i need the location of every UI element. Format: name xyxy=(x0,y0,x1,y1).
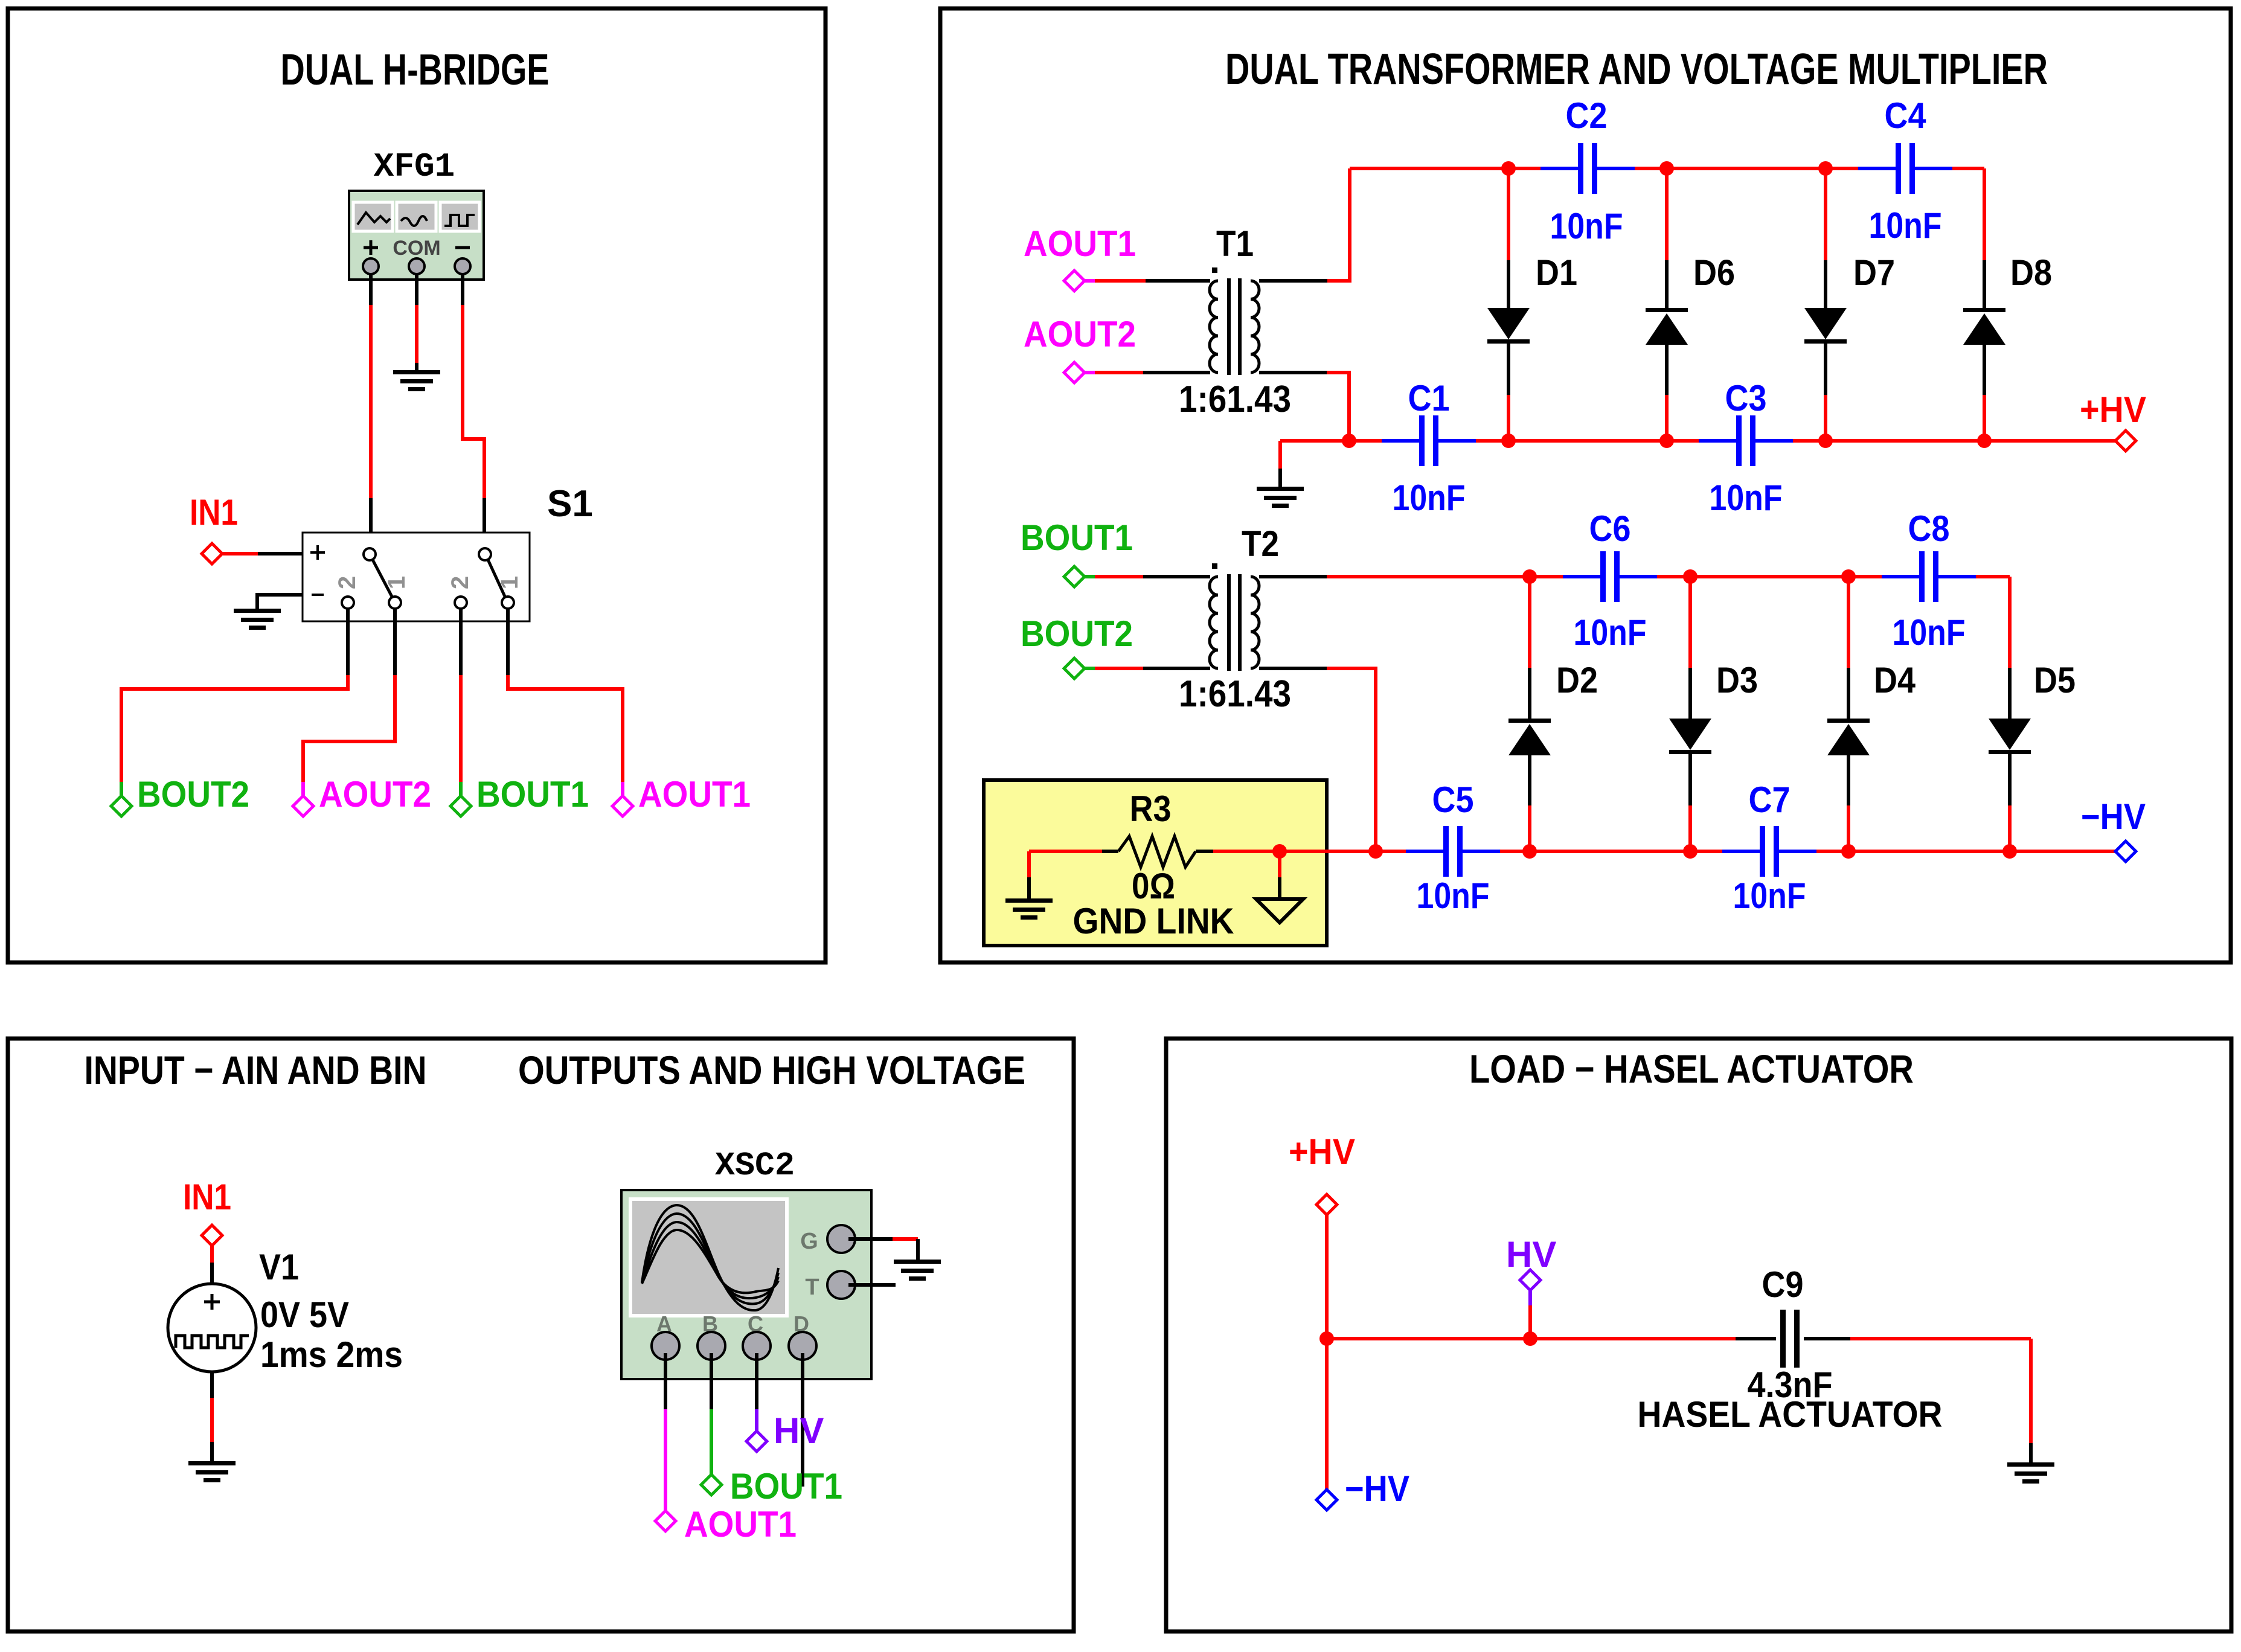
wire channel D stub xyxy=(801,1353,804,1487)
svg-text:C6: C6 xyxy=(1589,508,1631,549)
node AOUT2 connector xyxy=(1064,362,1085,383)
oscilloscope channel C terminal xyxy=(743,1311,771,1360)
svg-text:R3: R3 xyxy=(1130,789,1172,829)
capacitor C1 label xyxy=(1408,378,1450,418)
node AOUT1 connector xyxy=(1064,271,1085,291)
diode D2 vertical wire xyxy=(1528,577,1531,851)
wire T2 secondary bottom to lower bus xyxy=(1259,668,1376,851)
svg-text:IN1: IN1 xyxy=(183,1177,231,1217)
diode D5 label xyxy=(2034,660,2076,700)
node AOUT1 label xyxy=(638,774,751,815)
svg-text:D2: D2 xyxy=(1556,660,1598,700)
svg-text:+HV: +HV xyxy=(1289,1132,1355,1172)
junction dots load bus xyxy=(1319,1331,1537,1346)
svg-text:C1: C1 xyxy=(1408,378,1450,418)
capacitor C8 label xyxy=(1908,508,1950,549)
capacitor C2 value 10nF xyxy=(1550,206,1623,246)
wire T2 secondary top to lower top bus xyxy=(1259,575,1563,578)
node IN1 label box3 xyxy=(183,1177,231,1217)
svg-text:BOUT2: BOUT2 xyxy=(137,774,249,815)
node +HV label xyxy=(2080,389,2146,430)
capacitor C7 xyxy=(1722,826,1816,877)
node BOUT1 label xyxy=(476,774,589,815)
switch S1 body xyxy=(303,533,530,621)
svg-text:C3: C3 xyxy=(1725,378,1767,418)
diode D7 vertical wire xyxy=(1824,168,1827,441)
diode D4 xyxy=(1827,719,1870,755)
oscilloscope channel A terminal xyxy=(652,1311,679,1360)
diode D3 xyxy=(1669,719,1711,754)
wire +HV down to load bus xyxy=(1325,1215,1329,1339)
wire upper return bus segment 3 to +HV xyxy=(1793,439,2115,443)
svg-text:D1: D1 xyxy=(1536,252,1577,293)
svg-text:2: 2 xyxy=(447,576,473,589)
svg-text:−HV: −HV xyxy=(1345,1468,1409,1509)
ground below V1 xyxy=(188,1461,236,1482)
svg-text:DUAL TRANSFORMER AND VOLTAGE M: DUAL TRANSFORMER AND VOLTAGE MULTIPLIER xyxy=(1225,45,2048,94)
wire V1 to ground xyxy=(210,1372,214,1462)
source V1 body xyxy=(168,1284,256,1372)
node IN1 label xyxy=(190,492,238,533)
svg-text:BOUT1: BOUT1 xyxy=(1021,517,1133,558)
svg-text:10nF: 10nF xyxy=(1710,478,1783,518)
node BOUT1 connector xyxy=(450,796,471,816)
wire XFG1 + to S1 pole1 xyxy=(369,273,373,549)
ground below S1 xyxy=(234,609,281,630)
diode D4 vertical wire xyxy=(1847,577,1850,851)
node -HV connector xyxy=(2115,841,2136,862)
transformer T1 ratio label 1:61.43 xyxy=(1179,379,1291,420)
wire channel B to BOUT1 xyxy=(710,1353,713,1474)
wire S1 throw to BOUT2 xyxy=(121,609,348,796)
wire G to ground xyxy=(848,1239,918,1262)
node BOUT1 connector box2 xyxy=(1064,566,1085,587)
wire channel C to HV xyxy=(755,1353,758,1431)
capacitor C6 value 10nF xyxy=(1574,612,1647,653)
section frame LOAD - HASEL ACTUATOR xyxy=(1166,1039,2231,1631)
earth ground right of R3 xyxy=(1256,851,1303,923)
oscilloscope G terminal xyxy=(800,1225,855,1254)
resistor R3 label xyxy=(1130,789,1172,829)
diode D8 label xyxy=(2010,252,2052,293)
svg-text:+HV: +HV xyxy=(2080,389,2146,430)
svg-text:1:61.43: 1:61.43 xyxy=(1179,673,1291,715)
capacitor C3 value 10nF xyxy=(1710,478,1783,518)
capacitor C5 label xyxy=(1432,780,1474,820)
svg-text:HV: HV xyxy=(1506,1234,1556,1275)
junction dots lower multiplier xyxy=(1272,569,2017,859)
capacitor C9 xyxy=(1736,1310,1850,1368)
switch S1 label xyxy=(547,483,593,525)
wire IN1 to S1 xyxy=(223,552,303,555)
node -HV label xyxy=(2081,796,2146,837)
svg-text:OUTPUTS AND HIGH VOLTAGE: OUTPUTS AND HIGH VOLTAGE xyxy=(518,1048,1025,1092)
svg-text:D8: D8 xyxy=(2010,252,2052,293)
capacitor C5 xyxy=(1406,826,1500,877)
node AOUT2 label xyxy=(1024,314,1136,354)
svg-text:AOUT2: AOUT2 xyxy=(319,774,431,815)
capacitor C2 xyxy=(1540,143,1635,194)
diode D2 xyxy=(1508,719,1551,755)
source V1 label xyxy=(259,1247,299,1287)
capacitor C3 xyxy=(1699,415,1793,466)
transformer T1 label xyxy=(1216,223,1254,264)
svg-text:C7: C7 xyxy=(1749,780,1791,820)
wire AOUT2 to T1 primary bottom xyxy=(1085,371,1210,374)
svg-text:C8: C8 xyxy=(1908,508,1950,549)
wire HV stub to load bus xyxy=(1528,1290,1532,1339)
GND LINK label xyxy=(1073,901,1234,941)
wire lower top bus segment 2 xyxy=(1657,575,1882,578)
wire lower bus segment 3 to -HV xyxy=(1816,850,2115,853)
section frame DUAL H-BRIDGE xyxy=(8,8,826,962)
svg-text:C4: C4 xyxy=(1885,95,1927,136)
svg-text:D4: D4 xyxy=(1874,660,1916,700)
svg-text:BOUT2: BOUT2 xyxy=(1021,613,1133,654)
node IN1 connector xyxy=(202,543,222,564)
svg-text:10nF: 10nF xyxy=(1417,876,1490,916)
svg-text:S1: S1 xyxy=(547,483,593,525)
section frame INPUT AND OUTPUTS xyxy=(8,1039,1074,1631)
diode D6 vertical wire xyxy=(1665,168,1669,441)
GND LINK note box xyxy=(984,780,1327,946)
diode D3 vertical wire xyxy=(1688,577,1692,851)
svg-text:D6: D6 xyxy=(1693,252,1735,293)
svg-text:10nF: 10nF xyxy=(1869,205,1942,246)
svg-text:0Ω: 0Ω xyxy=(1132,866,1175,906)
transformer T2 ratio label 1:61.43 xyxy=(1179,673,1291,715)
diode D8 vertical wire xyxy=(1983,168,1986,441)
resistor R3 value 0 ohm xyxy=(1132,866,1175,906)
wire S1 throw to AOUT1 xyxy=(508,609,623,796)
svg-text:0V 5V: 0V 5V xyxy=(260,1295,349,1335)
svg-text:10nF: 10nF xyxy=(1550,206,1623,246)
svg-text:IN1: IN1 xyxy=(190,492,238,533)
source V1 value 0V 5V xyxy=(260,1295,349,1335)
svg-text:LOAD − HASEL ACTUATOR: LOAD − HASEL ACTUATOR xyxy=(1469,1046,1914,1091)
ground symbol upper multiplier xyxy=(1257,487,1304,508)
svg-text:T2: T2 xyxy=(1242,523,1279,564)
capacitor C9 label xyxy=(1762,1264,1804,1305)
svg-text:AOUT1: AOUT1 xyxy=(638,774,751,815)
wire lower bus segment 2 xyxy=(1500,850,1722,853)
capacitor C5 value 10nF xyxy=(1417,876,1490,916)
svg-text:C9: C9 xyxy=(1762,1264,1804,1305)
svg-text:DUAL H-BRIDGE: DUAL H-BRIDGE xyxy=(281,46,550,94)
svg-text:COM: COM xyxy=(393,237,440,260)
svg-text:10nF: 10nF xyxy=(1393,478,1466,518)
svg-text:XFG1: XFG1 xyxy=(374,147,455,186)
capacitor C8 value 10nF xyxy=(1893,612,1966,653)
svg-text:D7: D7 xyxy=(1853,252,1895,293)
XFG1 COM label xyxy=(393,237,440,260)
node BOUT2 connector xyxy=(111,796,132,816)
capacitor C1 value 10nF xyxy=(1393,478,1466,518)
oscilloscope XSC2 body xyxy=(621,1190,871,1379)
wire XFG1 COM to ground xyxy=(415,273,418,371)
wire load bus right to ground xyxy=(1850,1339,2031,1464)
diode D1 xyxy=(1487,308,1530,344)
svg-text:D5: D5 xyxy=(2034,660,2076,700)
wire XFG1 - to S1 pole2 xyxy=(463,273,484,549)
svg-text:1:61.43: 1:61.43 xyxy=(1179,379,1291,420)
node BOUT2 label xyxy=(137,774,249,815)
capacitor C9 value 4.3nF xyxy=(1748,1365,1833,1405)
oscilloscope XSC2 label xyxy=(715,1147,795,1185)
resistor R3 xyxy=(1029,836,1280,867)
diode D7 xyxy=(1804,308,1847,344)
node HV label box4 xyxy=(1506,1234,1556,1275)
capacitor C4 xyxy=(1858,143,1952,194)
wire upper return bus segment 1 xyxy=(1280,439,1382,443)
wire T stub xyxy=(848,1283,896,1287)
transformer T2 label xyxy=(1242,523,1279,564)
svg-text:BOUT1: BOUT1 xyxy=(476,774,589,815)
wire top bus segment 2 xyxy=(1635,167,1858,170)
svg-text:AOUT1: AOUT1 xyxy=(1024,223,1136,264)
node +HV label box4 xyxy=(1289,1132,1355,1172)
title DUAL TRANSFORMER AND VOLTAGE MULTIPLIER xyxy=(1225,45,2048,94)
diode D4 label xyxy=(1874,660,1916,700)
svg-text:−HV: −HV xyxy=(2081,796,2146,837)
diode D3 label xyxy=(1716,660,1758,700)
ground symbol left of R3 xyxy=(1005,898,1053,920)
svg-text:G: G xyxy=(800,1229,818,1254)
capacitor C7 value 10nF xyxy=(1733,876,1806,916)
XFG1 + terminal label xyxy=(364,240,378,255)
diode D5 xyxy=(1989,719,2031,754)
diode D6 label xyxy=(1693,252,1735,293)
oscilloscope T terminal xyxy=(805,1271,855,1300)
wire lower top bus segment 3 xyxy=(1976,575,2010,578)
wire S1 throw to BOUT1 xyxy=(459,609,463,796)
wire load bus left xyxy=(1327,1337,1736,1340)
diode D5 vertical wire xyxy=(2008,577,2012,851)
wire S1 throw to AOUT2 xyxy=(303,609,395,796)
XFG1 terminals xyxy=(363,258,470,274)
svg-text:C2: C2 xyxy=(1566,95,1608,136)
oscilloscope channel D terminal xyxy=(789,1311,816,1360)
wire T1 secondary bottom to lower node xyxy=(1259,373,1349,441)
capacitor C9 HASEL ACTUATOR label xyxy=(1638,1394,1943,1435)
svg-text:10nF: 10nF xyxy=(1733,876,1806,916)
diode D1 vertical wire xyxy=(1507,168,1510,441)
node BOUT2 connector box2 xyxy=(1064,658,1085,679)
diode D7 label xyxy=(1853,252,1895,293)
node IN1 connector box3 xyxy=(202,1225,222,1246)
node BOUT1 label box3 xyxy=(730,1466,842,1506)
wire top bus segment 1 xyxy=(1350,167,1540,170)
node BOUT1 label box2 xyxy=(1021,517,1133,558)
capacitor C6 label xyxy=(1589,508,1631,549)
capacitor C7 label xyxy=(1749,780,1791,820)
wire lower bus segment 1 xyxy=(1280,850,1406,853)
wire AOUT1 to T1 primary top xyxy=(1085,279,1210,283)
svg-text:HV: HV xyxy=(774,1410,824,1451)
svg-text:1: 1 xyxy=(496,576,523,589)
source V1 value 1ms 2ms xyxy=(260,1334,403,1375)
node AOUT1 label xyxy=(1024,223,1136,264)
section frame DUAL TRANSFORMER AND VOLTAGE MULTIPLIER xyxy=(940,8,2231,962)
capacitor C4 label xyxy=(1885,95,1927,136)
svg-text:INPUT − AIN AND BIN: INPUT − AIN AND BIN xyxy=(85,1048,427,1092)
svg-text:AOUT1: AOUT1 xyxy=(684,1504,797,1545)
capacitor C2 label xyxy=(1566,95,1608,136)
svg-text:HASEL ACTUATOR: HASEL ACTUATOR xyxy=(1638,1394,1943,1435)
node HV connector box4 xyxy=(1520,1270,1540,1290)
node -HV connector box4 xyxy=(1316,1490,1337,1510)
node +HV connector xyxy=(2115,431,2136,451)
node AOUT1 label box3 xyxy=(684,1504,797,1545)
svg-text:1: 1 xyxy=(383,576,410,589)
node HV connector box3 xyxy=(746,1431,767,1452)
wire IN1 to V1 xyxy=(210,1246,214,1284)
capacitor C4 value 10nF xyxy=(1869,205,1942,246)
capacitor C8 xyxy=(1882,551,1976,602)
diode D2 label xyxy=(1556,660,1598,700)
wire T1 secondary top to top bus xyxy=(1259,168,1350,281)
capacitor C1 xyxy=(1382,415,1476,466)
svg-text:10nF: 10nF xyxy=(1893,612,1966,653)
wire channel A to AOUT1 xyxy=(664,1353,667,1511)
diode D6 xyxy=(1646,308,1688,345)
node +HV connector box4 xyxy=(1316,1194,1337,1215)
wire load bus to -HV xyxy=(1325,1339,1329,1490)
node BOUT1 connector box3 xyxy=(701,1474,722,1495)
wire S1 minus to ground xyxy=(257,595,303,610)
ground at upper multiplier left xyxy=(1278,441,1282,488)
node BOUT2 label box2 xyxy=(1021,613,1133,654)
junction dots upper multiplier xyxy=(1342,161,1992,448)
svg-text:2: 2 xyxy=(334,576,361,589)
diode D8 xyxy=(1963,308,2005,345)
node AOUT2 label xyxy=(319,774,431,815)
capacitor C3 label xyxy=(1725,378,1767,418)
XFG1 - terminal label xyxy=(455,246,470,249)
wire BOUT2 to T2 primary bottom xyxy=(1085,667,1210,670)
oscilloscope XSC2 screen waveform xyxy=(642,1205,778,1310)
title LOAD - HASEL ACTUATOR xyxy=(1469,1046,1914,1091)
ground below COM xyxy=(393,370,440,391)
title INPUT - AIN AND BIN xyxy=(85,1048,427,1092)
wire upper return bus segment 2 xyxy=(1476,439,1699,443)
title OUTPUTS AND HIGH VOLTAGE xyxy=(518,1048,1025,1092)
node AOUT1 connector box3 xyxy=(655,1511,676,1531)
wire top bus segment 3 xyxy=(1952,167,1984,170)
svg-text:GND LINK: GND LINK xyxy=(1073,901,1234,941)
diode D1 label xyxy=(1536,252,1577,293)
oscilloscope channel B terminal xyxy=(697,1311,725,1360)
capacitor C6 xyxy=(1563,551,1657,602)
transformer T2 xyxy=(1210,563,1259,671)
svg-text:BOUT1: BOUT1 xyxy=(730,1466,842,1506)
svg-text:T1: T1 xyxy=(1216,223,1254,264)
svg-text:T: T xyxy=(805,1275,819,1300)
ground at load right xyxy=(2007,1462,2054,1484)
svg-text:D3: D3 xyxy=(1716,660,1758,700)
svg-text:1ms 2ms: 1ms 2ms xyxy=(260,1334,403,1375)
function generator XFG1 label xyxy=(374,147,455,186)
svg-text:XSC2: XSC2 xyxy=(715,1147,795,1185)
function generator XFG1 body xyxy=(349,191,484,280)
svg-text:C5: C5 xyxy=(1432,780,1474,820)
svg-text:AOUT2: AOUT2 xyxy=(1024,314,1136,354)
node -HV label box4 xyxy=(1345,1468,1409,1509)
ground left of R3 xyxy=(1027,851,1031,900)
wire BOUT1 to T2 primary top xyxy=(1085,575,1210,578)
ground at XSC2 G xyxy=(894,1260,941,1281)
svg-text:10nF: 10nF xyxy=(1574,612,1647,653)
transformer T1 xyxy=(1210,267,1259,375)
node AOUT2 connector xyxy=(293,796,313,816)
svg-text:V1: V1 xyxy=(259,1247,299,1287)
node AOUT1 connector xyxy=(612,796,633,816)
title DUAL H-BRIDGE xyxy=(281,46,550,94)
node HV label box3 xyxy=(774,1410,824,1451)
